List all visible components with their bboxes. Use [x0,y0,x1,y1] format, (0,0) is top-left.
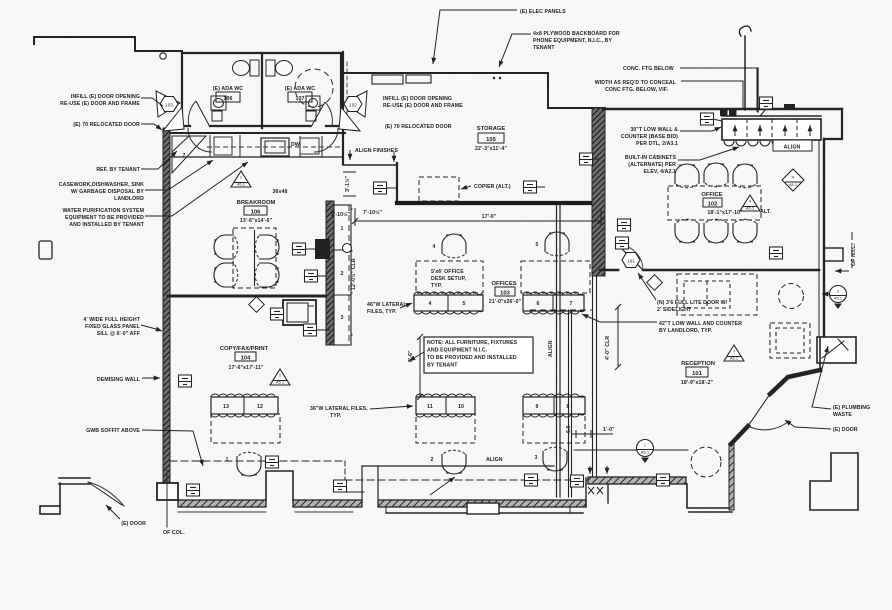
svg-text:9: 9 [536,404,539,410]
wall: storefront band D (hatched, east) [588,477,686,484]
casework: recessed cabinet (poche) on offices wall [315,239,330,259]
chairs: desks 1 2 3 [237,452,261,476]
svg-text:OF COL.: OF COL. [163,530,185,536]
svg-text:W/ GARBAGE DISPOSAL BY: W/ GARBAGE DISPOSAL BY [71,189,144,195]
svg-text:4: 4 [433,244,436,250]
files: lateral file row 9-8 [523,394,585,417]
svg-text:A5.1: A5.1 [746,206,755,211]
leader: (E) door left [106,505,120,519]
svg-text:(E) 70 RELOCATED DOOR: (E) 70 RELOCATED DOOR [385,124,452,130]
leader: 2/A5.1 circle right [822,293,830,295]
svg-text:2: 2 [431,457,434,463]
dimension: vertical 4'-0" CLR [617,307,619,367]
svg-text:8'-6": 8'-6" [408,350,414,362]
existing structure: isolated L-shape SE [810,453,858,510]
dimension: vertical 8'-6" [419,337,421,397]
svg-text:CONC. FTG BELOW: CONC. FTG BELOW [623,66,674,72]
svg-text:A5.1: A5.1 [730,356,739,361]
svg-text:4: 4 [429,301,432,307]
tag boxes on walls [374,182,387,194]
svg-text:1'-0": 1'-0" [603,427,615,433]
wall: storage north wall [345,72,548,74]
fixture: WC107 accessory box [306,111,316,121]
svg-text:ELEV, 4/A2.1: ELEV, 4/A2.1 [644,169,676,175]
svg-text:LANDLORD: LANDLORD [114,196,144,202]
svg-text:13: 13 [223,404,229,410]
leader: plywood backboard [499,34,531,67]
svg-text:103: 103 [500,291,510,297]
svg-text:COUNTER (BASE BID): COUNTER (BASE BID) [621,134,678,140]
svg-text:42"T LOW WALL AND COUNTER: 42"T LOW WALL AND COUNTER [659,321,742,327]
equipment: elec panels [372,75,403,84]
svg-text:161: 161 [627,259,635,264]
wall: reception SE corner vertical [729,443,734,510]
svg-text:8: 8 [567,404,570,410]
wall: offices east wall [556,205,558,497]
svg-text:ALIGN: ALIGN [548,340,554,357]
svg-text:REF. BY TENANT: REF. BY TENANT [96,167,140,173]
svg-text:AND EQUIPMENT N.I.C.: AND EQUIPMENT N.I.C. [427,348,488,354]
svg-text:OF N.I.C.: OF N.I.C. [851,243,857,266]
wall: offices west wall (hatched) [326,201,334,345]
cabinet column 1-3 along offices west wall [334,205,351,345]
wall: storage east furred column (hatched) [592,108,605,276]
svg-text:CASEWORK,DISHWASHER, SINK: CASEWORK,DISHWASHER, SINK [59,182,144,188]
door tag: hexagon 161 [622,253,640,268]
casework: scalloped cabinet fronts below counter [724,141,806,146]
furniture: reception side table (dashed squares) [770,323,810,358]
svg-text:7: 7 [570,301,573,307]
wall: storefront band C (center) [378,500,586,507]
leader: casework [145,160,213,190]
svg-text:1: 1 [226,457,229,463]
svg-text:FIXED GLASS PANEL: FIXED GLASS PANEL [85,324,141,330]
svg-text:TENANT: TENANT [533,45,555,51]
svg-text:OFFICE: OFFICE [701,192,722,198]
plumbing chase box [817,337,856,363]
wall: storefront recess notch [266,471,293,500]
equipment: copier in copy room [283,300,316,325]
svg-text:OFFICES: OFFICES [491,281,516,287]
leader: 46W lateral files [400,303,412,308]
svg-text:ALT.: ALT. [760,209,771,215]
casework: built-in counter office 102 [722,119,821,140]
elevation tags: triangles [231,171,251,187]
svg-text:(E) PLUMBING: (E) PLUMBING [833,405,870,411]
leader: full lite door [638,273,656,300]
svg-text:BY TENANT: BY TENANT [427,363,458,369]
leader: gwb soffit [142,430,203,466]
casework: filled wall cabinets above counter [720,108,728,116]
svg-text:GWB SOFFIT ABOVE: GWB SOFFIT ABOVE [86,428,140,434]
leader: 42T low wall [582,314,657,322]
wall: WC bottom / kitchen back wall [170,132,345,134]
svg-text:3: 3 [341,315,344,321]
svg-text:(E) ADA WC: (E) ADA WC [213,86,243,92]
wall: storefront band A (left) [178,500,266,507]
svg-text:3: 3 [535,455,538,461]
svg-text:22'-3"x11'-4": 22'-3"x11'-4" [475,146,507,152]
soffit: dashed line at offices west [348,205,350,345]
svg-text:36x48: 36x48 [273,189,288,195]
svg-text:102: 102 [708,202,718,208]
wall: entry diagonal NE [770,370,820,394]
svg-text:BUILT-IN CABINETS: BUILT-IN CABINETS [625,155,677,161]
svg-text:13'-6"x14'-6": 13'-6"x14'-6" [240,218,273,224]
leader: conc ftg [680,68,757,112]
wall: reception south jog [687,484,732,512]
wall: storage NE step [548,73,605,108]
clearance: WC107 dashed turning circle [295,69,333,107]
svg-text:A5.1: A5.1 [641,450,650,455]
fixture: WC106 toilet [250,60,259,76]
door reveal: east bowtie jambs [343,91,367,117]
tag leader stubs [305,109,766,330]
svg-text:7: 7 [183,153,186,159]
svg-text:106: 106 [224,96,233,102]
svg-text:4'-0" CLR: 4'-0" CLR [605,336,611,360]
appliance: sink DW [261,138,289,156]
svg-text:46"W LATERAL: 46"W LATERAL [367,302,407,308]
svg-text:18'-1"x17'-10": 18'-1"x17'-10" [707,210,743,216]
leader: arrow to desk 2 area [430,477,455,495]
wall: inner face line reception south [574,449,688,451]
door: WC106 swing [196,101,210,127]
door tag: hexagon 102 [344,97,362,112]
wall: breakroom/copy partition [168,295,330,298]
leader: glass panel [141,325,162,331]
furniture: waste bin dashed circle at entry [691,447,721,477]
svg-text:7'-10½": 7'-10½" [363,209,383,216]
svg-text:10: 10 [458,404,464,410]
dimension: 17'-0" below storage wall [355,208,601,226]
keynote circle 5 at offices wall [343,244,352,253]
svg-text:5: 5 [536,242,539,248]
svg-text:(E) 70 RELOCATED DOOR: (E) 70 RELOCATED DOOR [73,122,140,128]
leader: 36W lateral files [370,406,413,409]
svg-text:1'-10½": 1'-10½" [331,211,351,218]
svg-text:2' SIDELIGHT: 2' SIDELIGHT [657,307,692,313]
svg-text:DESK SETUP,: DESK SETUP, [431,276,466,282]
wall: demising wall (west, hatched) [163,128,170,484]
svg-text:WASTE: WASTE [833,412,852,418]
svg-text:ALIGN: ALIGN [486,457,503,463]
desks: lower dashed desks [211,414,280,443]
elevation tag: big diamond office 102 [782,169,804,191]
furniture: breakroom table (dashed) [233,228,276,288]
svg-text:DEMISING WALL: DEMISING WALL [97,377,141,383]
svg-text:(N) 3'6 FULL LITE DOOR W/: (N) 3'6 FULL LITE DOOR W/ [657,300,728,306]
wall: storage south wall [397,201,601,205]
wall: top-left exterior outline [34,37,182,51]
svg-text:11: 11 [427,404,433,410]
wall: step down east of offices wall [586,478,608,507]
leader: infill door opening (left) [141,98,163,106]
svg-text:COPY/FAX/PRINT: COPY/FAX/PRINT [220,346,269,352]
soffit: dashed GWB soffit line west [170,460,345,462]
wall: step line west of offices band [340,491,364,493]
fixture: WC107 toilet [266,60,275,76]
appliance: refrigerator (angled) [172,136,206,173]
svg-text:WIDTH AS REQ'D TO CONCEAL: WIDTH AS REQ'D TO CONCEAL [595,80,677,86]
chairs: desks 4 and 5 [442,234,466,258]
svg-text:ALIGN: ALIGN [784,145,801,151]
svg-text:12'-0½" CLR: 12'-0½" CLR [350,258,357,290]
note box [424,337,533,373]
svg-text:17'-6"x17'-11": 17'-6"x17'-11" [228,365,263,371]
glazing tick arrows at band D [589,466,591,474]
svg-text:INFILL (E) DOOR OPENING: INFILL (E) DOOR OPENING [71,94,140,100]
soffit: dashed GWB soffit line east [345,479,588,481]
wall: top-right wall over counter [722,115,821,117]
dimension: 1'-0" at reception SW [571,430,613,438]
furniture: reception chair (dashed circle) [779,284,804,309]
svg-text:101: 101 [692,371,702,377]
svg-text:BREAKROOM: BREAKROOM [237,200,276,206]
svg-text:(E) ADA WC: (E) ADA WC [285,86,315,92]
svg-text:SILL @ 6'-0" AFF: SILL @ 6'-0" AFF [97,331,140,337]
svg-text:18'-9"x18'-2": 18'-9"x18'-2" [681,380,714,386]
leader: relocated door (left) [141,124,162,130]
bulkhead dashes above offices east wall [530,309,592,311]
svg-text:ALIGN FINISHES: ALIGN FINISHES [355,148,398,154]
door: reception-office door leaf and swing [618,245,643,270]
dimension: 3'-1.5" vertical at storage west [343,172,356,196]
svg-text:(ALTERNATE) PER: (ALTERNATE) PER [628,162,676,168]
svg-text:CONC FTG, BELOW, VIF.: CONC FTG, BELOW, VIF. [605,87,668,93]
svg-text:12: 12 [257,404,263,410]
door tag: hexagon 103 [160,97,178,112]
column: grid column at demising wall [157,483,178,500]
leader: demising wall [142,377,160,379]
svg-text:102: 102 [349,103,357,108]
svg-text:6.0: 6.0 [566,425,572,433]
svg-text:5'x6' OFFICE: 5'x6' OFFICE [431,269,464,275]
svg-text:106: 106 [251,210,261,216]
leader: water purification [145,162,248,216]
svg-text:FILES, TYP.: FILES, TYP. [367,309,397,315]
wall: step to inner face [362,466,378,500]
wall: chase above counter [744,36,746,110]
svg-text:STORAGE: STORAGE [477,126,506,132]
svg-text:RE-USE (E) DOOR AND FRAME: RE-USE (E) DOOR AND FRAME [383,103,463,109]
ceiling hook symbol [739,26,751,36]
svg-text:COPIER (ALT.): COPIER (ALT.) [474,184,511,190]
fixture: WC106 accessory box [212,111,222,121]
svg-text:5: 5 [463,301,466,307]
svg-text:NOTE: ALL FURNITURE, FIXTURES: NOTE: ALL FURNITURE, FIXTURES [427,340,518,346]
svg-text:21'-0"x26'-0": 21'-0"x26'-0" [489,299,522,305]
fixture: WC107 sink [306,96,320,110]
svg-text:(E) ELEC PANELS: (E) ELEC PANELS [520,9,566,15]
leader: elec panels [433,10,517,64]
svg-text:TO BE PROVIDED AND INSTALLED: TO BE PROVIDED AND INSTALLED [427,355,517,361]
leader: note box [409,352,424,361]
wall: far-left exterior stub [40,506,60,514]
wall: office/reception wall with door [600,269,618,272]
svg-text:2: 2 [341,271,344,277]
wall: east wall pilaster bump [824,248,843,261]
door reveal: west bowtie jambs [156,91,180,117]
svg-text:A5.1: A5.1 [834,296,843,301]
leader: width as reqd [681,81,743,108]
svg-text:EQUIPMENT TO BE PROVIDED: EQUIPMENT TO BE PROVIDED [65,215,144,221]
fixture: isolated panel far left [39,241,52,259]
wall: inner face line offices [378,465,554,467]
svg-text:4' WIDE FULL HEIGHT: 4' WIDE FULL HEIGHT [83,317,140,323]
keynote diamonds [249,297,265,313]
wall: align-finishes stub [343,164,397,166]
wall: storefront pier [467,503,499,514]
desks: office 103 upper dashed desks [416,261,483,293]
files: lateral file row 11-10 [416,394,475,417]
svg-text:(E) DOOR: (E) DOOR [121,521,146,527]
svg-text:107: 107 [296,96,305,102]
wall: storage west wall [342,52,344,164]
fixture: WC106 sink [211,96,226,110]
centerline: C of NIC dashed [851,232,853,268]
leader: plumbing waste [812,346,831,409]
svg-text:4x8 PLYWOOD BACKBOARD FOR: 4x8 PLYWOOD BACKBOARD FOR [533,31,620,37]
svg-text:WATER PURIFICATION SYSTEM: WATER PURIFICATION SYSTEM [62,208,144,214]
svg-text:TYP.: TYP. [330,413,342,419]
svg-text:3'-1½": 3'-1½" [344,175,351,192]
svg-text:AND INSTALLED BY TENANT: AND INSTALLED BY TENANT [69,222,144,228]
svg-text:1: 1 [341,226,344,232]
svg-text:30"T LOW WALL &: 30"T LOW WALL & [630,127,678,133]
svg-text:PER DTL, 2/A3.1: PER DTL, 2/A3.1 [636,141,678,147]
svg-text:A5.1: A5.1 [237,182,246,187]
svg-text:103: 103 [165,103,173,108]
wall: right wall to chase [819,338,821,370]
files: lateral file row 6-7 [523,292,584,314]
wall: storefront sill line [386,512,583,514]
leader: copier alt [461,186,471,189]
svg-text:(E) DOOR: (E) DOOR [833,427,858,433]
leader: built-in cabinets [678,147,739,160]
svg-text:RECEPTION: RECEPTION [681,361,715,367]
svg-text:104: 104 [241,356,251,362]
svg-text:TYP.: TYP. [431,283,443,289]
wall: office 102 north wall [603,108,842,110]
door: entry double leaf [748,394,770,426]
files: lateral file row 13-12 [211,394,278,417]
svg-text:INFILL (E) DOOR OPENING: INFILL (E) DOOR OPENING [383,96,452,102]
wall: storefront band B [293,500,362,507]
door: (E) door bottom-left leaf+arc [88,482,122,505]
svg-text:A5.1: A5.1 [276,380,285,385]
svg-text:DW: DW [291,142,300,148]
section tags: circles [830,286,847,310]
svg-text:A5.1: A5.1 [789,182,798,187]
door hinge circle top-left [160,53,166,59]
svg-text:BY LANDLORD, TYP.: BY LANDLORD, TYP. [659,328,713,334]
svg-text:RE-USE (E) DOOR AND FRAME: RE-USE (E) DOOR AND FRAME [60,101,140,107]
door: WC107 swing [311,102,325,127]
wall: left exterior jog [59,478,90,506]
leader: ref by tenant [141,151,177,169]
svg-text:17'-0": 17'-0" [482,214,497,220]
align finishes arrows [349,150,351,160]
furniture: conference table office 102 [668,186,761,220]
furniture: breakroom chairs [214,235,238,259]
align box office 102 [773,140,812,151]
leader: 30T low wall [680,127,721,131]
svg-text:PHONE EQUIPMENT, N.I.C., BY: PHONE EQUIPMENT, N.I.C., BY [533,38,613,44]
leader: C of NIC [835,270,849,272]
files: lateral file row 4-5 [414,292,483,314]
dimension: 12'-0.5 CLR ticks [351,208,353,345]
svg-text:36"W LATERAL FILES,: 36"W LATERAL FILES, [310,406,368,412]
casework: kitchen counter edge [172,156,343,158]
wall: entry diagonal SW [731,426,748,444]
door swing arcs into breakroom [188,128,212,152]
svg-text:6: 6 [537,301,540,307]
wall: WC block perimeter [182,53,341,128]
furniture: reception desk (dashed) [677,274,757,315]
leader: (E) door right [785,420,831,429]
equipment: copier (alt) dashed in storage [419,177,459,201]
svg-text:105: 105 [486,137,496,143]
wall: east wall of office 102 [823,139,825,338]
